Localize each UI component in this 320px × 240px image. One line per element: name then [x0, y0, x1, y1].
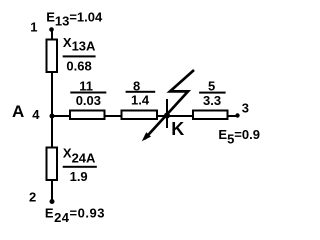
svg-text:A: A	[12, 102, 24, 121]
svg-text:E13=1.04: E13=1.04	[46, 10, 103, 29]
svg-text:4: 4	[32, 107, 40, 122]
svg-text:5: 5	[208, 78, 215, 93]
svg-text:8: 8	[133, 78, 140, 93]
svg-text:2: 2	[29, 189, 36, 204]
svg-text:1.4: 1.4	[131, 93, 150, 108]
svg-text:E24=0.93: E24=0.93	[45, 205, 105, 225]
svg-text:0.03: 0.03	[76, 93, 101, 108]
svg-text:0.68: 0.68	[66, 59, 91, 74]
svg-text:1.9: 1.9	[70, 169, 88, 184]
svg-text:E5=0.9: E5=0.9	[218, 127, 260, 147]
svg-text:K: K	[171, 119, 184, 139]
svg-text:3.3: 3.3	[203, 93, 221, 108]
svg-text:X13A: X13A	[63, 35, 96, 54]
svg-text:1: 1	[30, 19, 37, 34]
svg-text:3: 3	[242, 101, 249, 116]
svg-text:11: 11	[79, 78, 93, 93]
svg-text:X24A: X24A	[63, 146, 96, 166]
